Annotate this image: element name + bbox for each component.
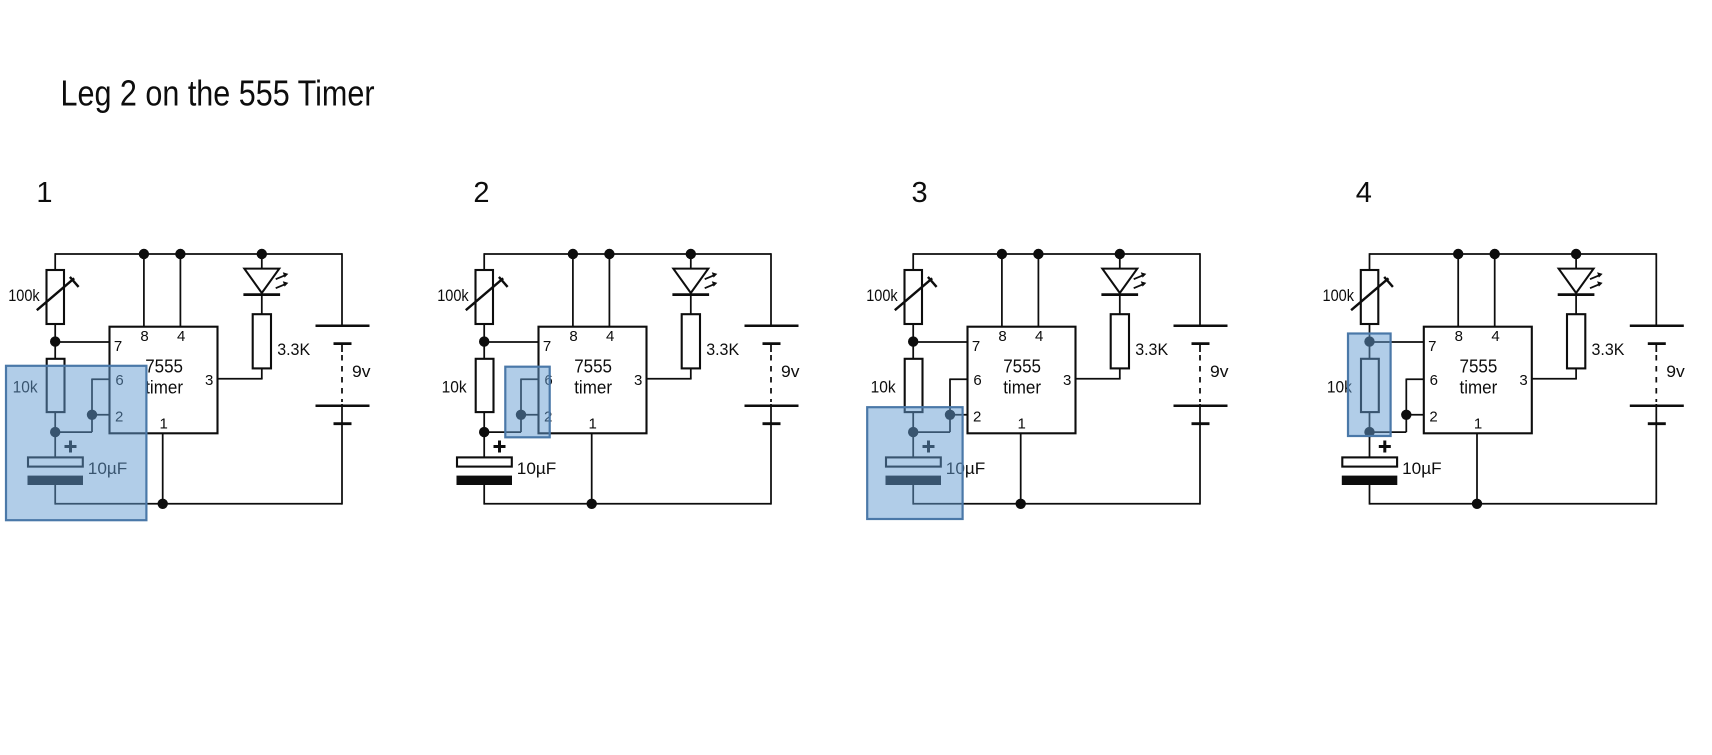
battery B1 cell2 positive plate [1174, 404, 1228, 407]
node: junction RV1/R2/pin7 [1364, 336, 1374, 346]
svg-text:3.3K: 3.3K [1592, 341, 1625, 359]
svg-text:1: 1 [1474, 415, 1482, 432]
battery B1 cell2 positive plate [316, 404, 370, 407]
resistor R3 3.3K [253, 314, 271, 368]
svg-text:9v: 9v [352, 363, 371, 381]
svg-text:7: 7 [972, 338, 980, 355]
wire: LED anode to top rail [690, 254, 692, 269]
wire: pin 2 stub [92, 414, 110, 416]
wire: pin 6 to pin 2 jumper vertical [520, 379, 522, 433]
wire: Vcc top rail circuit 3 [913, 253, 1200, 255]
wire: top rail to RV1 top [1369, 253, 1371, 271]
wire: LED cathode to R3 [690, 295, 692, 315]
wire: LED anode to top rail [261, 254, 263, 269]
label + polarity [494, 441, 506, 453]
battery B1 cell1 negative plate [763, 342, 781, 345]
battery B1 9v cell1 positive plate [1630, 324, 1684, 327]
wire: pin 4 to top rail [608, 254, 610, 327]
capacitor C1 10uF [28, 457, 84, 485]
node: pin 4 on top rail [1490, 249, 1500, 259]
node: pin 4 on top rail [604, 249, 614, 259]
op-amp/IC U2 7555 timer [539, 327, 647, 434]
svg-text:timer: timer [1003, 377, 1041, 397]
wire: LED cathode to R3 [261, 295, 263, 315]
svg-text:8: 8 [1455, 328, 1463, 345]
wire: C1 bottom to bottom rail [54, 485, 56, 505]
wire: jumper to R2/C1 junction [55, 431, 93, 433]
wire: top rail to RV1 top [912, 253, 914, 271]
wire: battery - down to bottom rail [341, 424, 343, 505]
svg-text:Leg 2 on the 555 Timer: Leg 2 on the 555 Timer [61, 73, 375, 114]
wire: jumper to R2/C1 junction [484, 431, 522, 433]
wire: top rail to RV1 top [54, 253, 56, 271]
wire: pin 7 to RV1/R2 junction [1370, 341, 1425, 343]
label 7555 timer [1460, 356, 1498, 397]
node: pin 8 on top rail [568, 249, 578, 259]
battery B1 cell1 negative plate [1648, 342, 1666, 345]
wire: Vcc top rail circuit 4 [1370, 253, 1657, 255]
wire: pin 1 down to bottom rail [1020, 433, 1022, 504]
wire: top rail down to battery + [341, 253, 343, 326]
LED D1 [672, 269, 717, 295]
resistor R3 3.3K [682, 314, 700, 368]
highlight overlay circuit 2 [505, 367, 549, 438]
resistor R2 10k [476, 359, 494, 412]
svg-text:timer: timer [145, 377, 183, 397]
svg-text:10µF: 10µF [1402, 460, 1442, 478]
svg-text:1: 1 [36, 177, 52, 209]
battery B1 9v cell1 positive plate [316, 324, 370, 327]
wire: top rail down to battery + [1655, 253, 1657, 326]
svg-text:6: 6 [973, 372, 981, 389]
node: pin 4 on top rail [175, 249, 185, 259]
op-amp/IC U4 7555 timer [1424, 327, 1532, 434]
wire: LED anode to top rail [1119, 254, 1121, 269]
capacitor C1 10uF [1342, 457, 1398, 485]
op-amp/IC U3 7555 timer [968, 327, 1076, 434]
svg-text:1: 1 [160, 415, 168, 432]
wire: top rail down to battery + [1199, 253, 1201, 326]
wire: ground bottom rail [1370, 503, 1657, 505]
wire: R2 bottom to C1 top junction [483, 412, 485, 458]
svg-text:4: 4 [1035, 328, 1043, 345]
resistor R3 3.3K [1567, 314, 1585, 368]
wire: R3 bottom to pin 3 [1531, 368, 1577, 378]
wire: pin 7 to RV1/R2 junction [55, 341, 110, 343]
node: pin 4 on top rail [1033, 249, 1043, 259]
wire: jumper to R2/C1 junction [1369, 431, 1407, 433]
wire: pin 7 to RV1/R2 junction [484, 341, 539, 343]
svg-text:8: 8 [140, 328, 148, 345]
battery B1 interior dashed link [770, 344, 772, 424]
wire: LED cathode to R3 [1119, 295, 1121, 315]
highlight overlay circuit 3 [867, 407, 962, 519]
wire: Vcc top rail circuit 2 [484, 253, 771, 255]
node: pin 8 on top rail [1453, 249, 1463, 259]
svg-text:7555: 7555 [574, 356, 612, 376]
resistor R2 10k [47, 359, 65, 412]
potentiometer RV1 100k [895, 270, 937, 324]
svg-text:2: 2 [473, 177, 489, 209]
node: LED branch on top rail [1571, 249, 1581, 259]
svg-text:3.3K: 3.3K [277, 341, 310, 359]
node: pin 1 on bottom rail [1016, 499, 1026, 509]
wire: battery - down to bottom rail [770, 424, 772, 505]
wire: jumper to R2/C1 junction [913, 431, 951, 433]
wire: pin 6 to pin 2 jumper vertical [1405, 379, 1407, 433]
node: LED branch on top rail [257, 249, 267, 259]
wire: RV1 bottom to R2 top [912, 324, 914, 360]
svg-text:8: 8 [998, 328, 1006, 345]
node: LED branch on top rail [1115, 249, 1125, 259]
battery B1 interior dashed link [1655, 344, 1657, 424]
battery B1 cell2 negative plate [763, 422, 781, 425]
wire: battery - down to bottom rail [1199, 424, 1201, 505]
wire: pin 4 to top rail [1037, 254, 1039, 327]
LED D1 [243, 269, 288, 295]
capacitor C1 10uF [886, 457, 942, 485]
svg-text:3: 3 [912, 177, 928, 209]
wire: pin 6 stub [950, 378, 968, 380]
wire: R2 bottom to C1 top junction [1369, 412, 1371, 458]
wire: Vcc top rail circuit 1 [55, 253, 342, 255]
LED D1 [1101, 269, 1146, 295]
wire: pin 7 to RV1/R2 junction [913, 341, 968, 343]
svg-text:3: 3 [1063, 372, 1071, 389]
wire: pin 2 stub [950, 414, 968, 416]
node: junction RV1/R2/pin7 [479, 336, 489, 346]
wire: ground bottom rail [913, 503, 1200, 505]
battery B1 cell2 positive plate [1630, 404, 1684, 407]
label + polarity [1379, 441, 1391, 453]
svg-text:7555: 7555 [1460, 356, 1498, 376]
svg-text:2: 2 [973, 409, 981, 426]
node: pin 1 on bottom rail [158, 499, 168, 509]
wire: R2 bottom to C1 top junction [54, 412, 56, 458]
wire: pin 4 to top rail [179, 254, 181, 327]
wire: pin 2 stub [1406, 414, 1424, 416]
node: pin 8 on top rail [139, 249, 149, 259]
svg-text:9v: 9v [1666, 363, 1685, 381]
node: junction R2/C1/trigger net [479, 427, 489, 437]
svg-text:2: 2 [1429, 409, 1437, 426]
wire: RV1 bottom to R2 top [54, 324, 56, 360]
wire: pin 1 down to bottom rail [1476, 433, 1478, 504]
node: junction R2/C1/trigger net [50, 427, 60, 437]
svg-text:100k: 100k [437, 287, 469, 305]
battery B1 9v cell1 positive plate [1174, 324, 1228, 327]
svg-text:1: 1 [1018, 415, 1026, 432]
wire: battery - down to bottom rail [1655, 424, 1657, 505]
potentiometer RV1 100k [466, 270, 508, 324]
svg-text:7: 7 [543, 338, 551, 355]
svg-text:100k: 100k [8, 287, 40, 305]
wire: top rail to RV1 top [483, 253, 485, 271]
op-amp/IC U1 7555 timer [110, 327, 218, 434]
wire: ground bottom rail [55, 503, 342, 505]
wire: pin 6 stub [92, 378, 110, 380]
highlight overlay circuit 1 [6, 366, 146, 520]
svg-text:100k: 100k [1323, 287, 1355, 305]
node: junction pin2/pin6 jumper [945, 410, 955, 420]
wire: top rail down to battery + [770, 253, 772, 326]
wire: R3 bottom to pin 3 [217, 368, 263, 378]
battery B1 cell2 negative plate [1192, 422, 1210, 425]
wire: pin 1 down to bottom rail [591, 433, 593, 504]
resistor R2 10k [905, 359, 923, 412]
node: junction R2/C1/trigger net [1364, 427, 1374, 437]
node: junction pin2/pin6 jumper [1401, 410, 1411, 420]
svg-text:4: 4 [606, 328, 614, 345]
wire: LED cathode to R3 [1575, 295, 1577, 315]
svg-text:8: 8 [569, 328, 577, 345]
wire: ground bottom rail [484, 503, 771, 505]
svg-text:3.3K: 3.3K [706, 341, 739, 359]
resistor R2 10k [1361, 359, 1379, 412]
potentiometer RV1 100k [37, 270, 79, 324]
wire: pin 6 stub [521, 378, 539, 380]
svg-text:9v: 9v [1210, 363, 1229, 381]
svg-text:3.3K: 3.3K [1135, 341, 1168, 359]
battery B1 interior dashed link [1199, 344, 1201, 424]
node: pin 8 on top rail [997, 249, 1007, 259]
label + polarity [65, 441, 77, 453]
wire: R3 bottom to pin 3 [1075, 368, 1121, 378]
node: pin 1 on bottom rail [1472, 499, 1482, 509]
wire: R2 bottom to C1 top junction [912, 412, 914, 458]
node: junction RV1/R2/pin7 [50, 336, 60, 346]
wire: C1 bottom to bottom rail [1369, 485, 1371, 505]
wire: pin 2 stub [521, 414, 539, 416]
label 7555 timer [1003, 356, 1041, 397]
svg-text:10µF: 10µF [517, 460, 557, 478]
wire: R3 bottom to pin 3 [646, 368, 692, 378]
svg-text:3: 3 [205, 372, 213, 389]
svg-text:7: 7 [114, 338, 122, 355]
label 7555 timer [145, 356, 183, 397]
node: junction pin2/pin6 jumper [87, 410, 97, 420]
svg-text:4: 4 [177, 328, 185, 345]
wire: pin 8 to top rail [572, 254, 574, 327]
wire: LED anode to top rail [1575, 254, 1577, 269]
wire: pin 8 to top rail [1001, 254, 1003, 327]
wire: RV1 bottom to R2 top [1369, 324, 1371, 360]
svg-text:1: 1 [589, 415, 597, 432]
label 7555 timer [574, 356, 612, 397]
svg-text:10k: 10k [442, 379, 468, 397]
wire: pin 8 to top rail [143, 254, 145, 327]
svg-text:timer: timer [574, 377, 612, 397]
potentiometer RV1 100k [1351, 270, 1393, 324]
svg-text:4: 4 [1491, 328, 1499, 345]
label + polarity [923, 441, 935, 453]
wire: pin 6 to pin 2 jumper vertical [949, 379, 951, 433]
node: junction R2/C1/trigger net [908, 427, 918, 437]
node: LED branch on top rail [686, 249, 696, 259]
svg-text:7555: 7555 [1003, 356, 1041, 376]
node: junction pin2/pin6 jumper [516, 410, 526, 420]
resistor R3 3.3K [1111, 314, 1129, 368]
battery B1 cell1 negative plate [334, 342, 352, 345]
battery B1 cell1 negative plate [1192, 342, 1210, 345]
svg-text:100k: 100k [866, 287, 898, 305]
wire: pin 1 down to bottom rail [162, 433, 164, 504]
wire: pin 4 to top rail [1494, 254, 1496, 327]
wire: pin 8 to top rail [1457, 254, 1459, 327]
node: junction RV1/R2/pin7 [908, 336, 918, 346]
svg-text:6: 6 [1430, 372, 1438, 389]
wire: pin 6 to pin 2 jumper vertical [91, 379, 93, 433]
highlight overlay circuit 4 [1348, 334, 1391, 437]
wire: C1 bottom to bottom rail [912, 485, 914, 505]
svg-text:4: 4 [1356, 177, 1372, 209]
wire: RV1 bottom to R2 top [483, 324, 485, 360]
svg-text:7555: 7555 [145, 356, 183, 376]
battery B1 9v cell1 positive plate [745, 324, 799, 327]
battery B1 cell2 negative plate [334, 422, 352, 425]
wire: pin 6 stub [1406, 378, 1424, 380]
battery B1 cell2 positive plate [745, 404, 799, 407]
battery B1 interior dashed link [341, 344, 343, 424]
capacitor C1 10uF [457, 457, 513, 485]
svg-text:3: 3 [634, 372, 642, 389]
svg-text:9v: 9v [781, 363, 800, 381]
svg-text:10k: 10k [871, 379, 897, 397]
svg-text:timer: timer [1460, 377, 1498, 397]
node: pin 1 on bottom rail [587, 499, 597, 509]
svg-text:3: 3 [1519, 372, 1527, 389]
svg-text:7: 7 [1428, 338, 1436, 355]
wire: C1 bottom to bottom rail [483, 485, 485, 505]
LED D1 [1558, 269, 1603, 295]
battery B1 cell2 negative plate [1648, 422, 1666, 425]
